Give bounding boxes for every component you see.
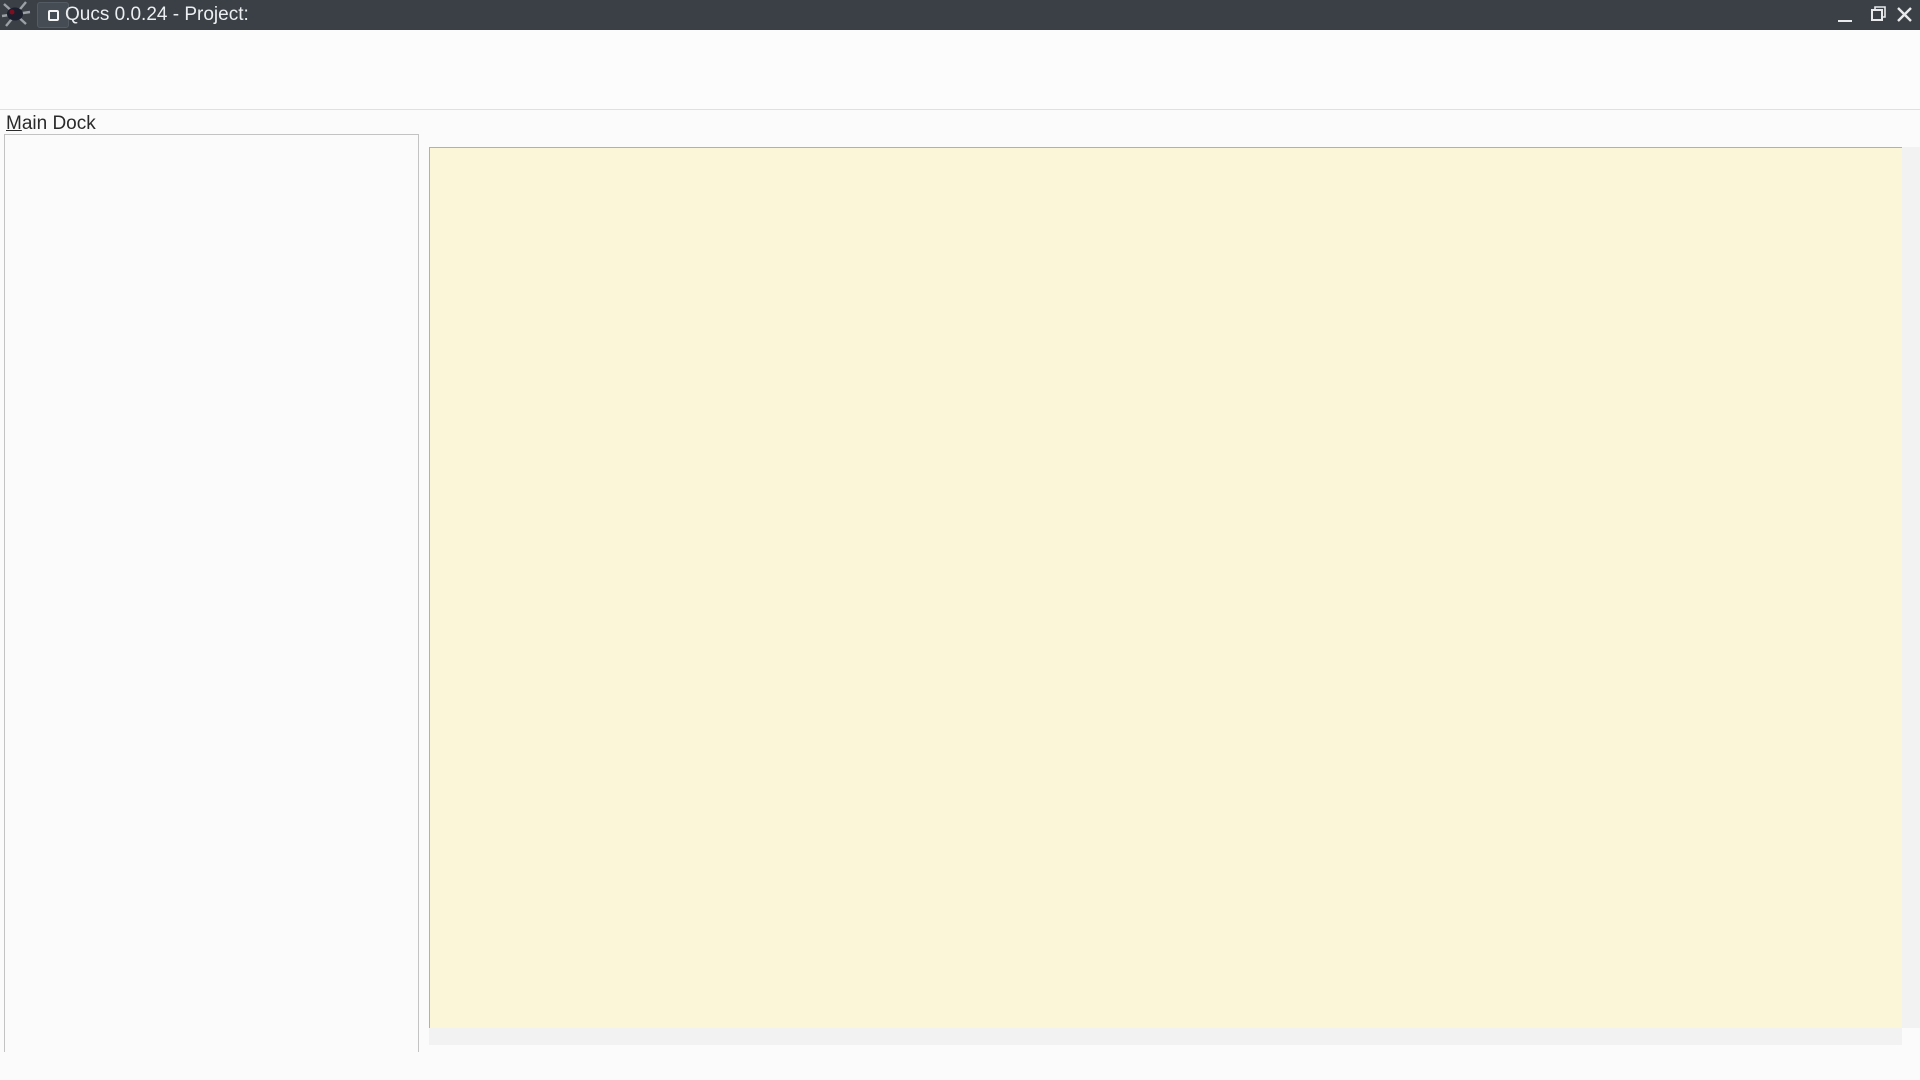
- DOCK: [0, 110, 428, 1080]
- CANVAS: [429, 147, 1902, 1028]
- STATUSBAR: [0, 1052, 1920, 1080]
- TABBAR: [428, 110, 1920, 147]
- TOOLBAR: [0, 57, 1920, 110]
- TITLEBAR: [0, 0, 1920, 30]
- MENUBAR: [0, 30, 1920, 57]
